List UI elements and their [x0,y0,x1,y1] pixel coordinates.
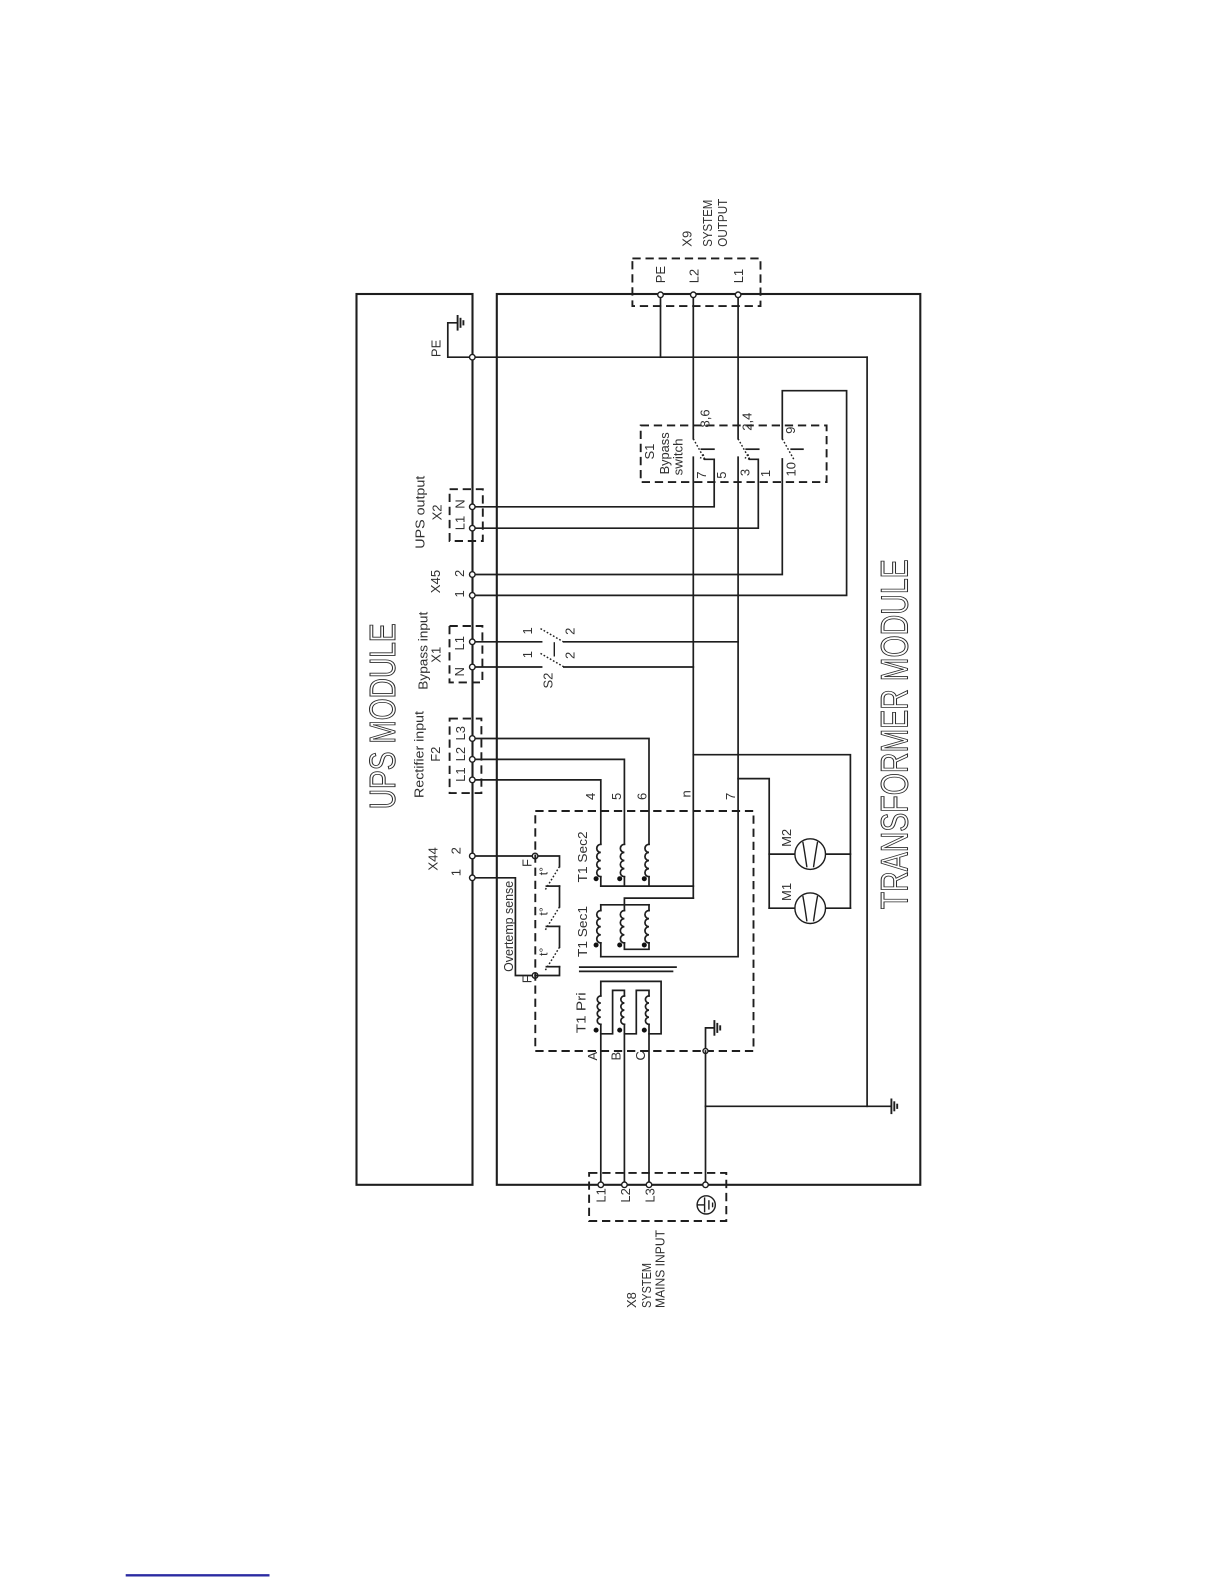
terminal X2-N [470,504,476,510]
svg-text:6: 6 [635,793,650,800]
svg-text:X2: X2 [430,504,445,520]
polarity dot T1 Sec2 winding 3 [642,876,647,881]
svg-text:M1: M1 [779,883,794,901]
fan M1 [795,893,826,924]
wire overtemp chain segment 3 to F lower [535,967,559,976]
svg-text:F: F [520,859,535,867]
wire overtemp chain segment 2 [559,926,561,947]
wire T1 Sec1 winding1 to return bus [600,943,602,957]
wire L1 from X9 to S1 pole2 [737,295,739,439]
thermostat contact t2 bar [546,925,559,927]
svg-text:X44: X44 [425,847,440,870]
svg-text:S1: S1 [642,444,657,460]
ground at transformer bottom right [890,1099,892,1115]
connector X1 dashed outline [450,626,483,682]
svg-text:L1: L1 [594,1188,609,1202]
svg-text:L1: L1 [731,269,746,283]
wire PE bottom horizontal to ground [706,1105,891,1107]
svg-text:PE: PE [428,339,443,357]
terminal X9-PE [658,292,664,298]
svg-text:5: 5 [714,472,729,479]
svg-text:2: 2 [448,847,463,854]
connector X9 dashed outline [632,258,760,306]
svg-text:2: 2 [452,570,467,577]
switch S1 pole3 contact tick [791,448,803,450]
svg-text:UPS output: UPS output [413,475,428,548]
svg-text:2,4: 2,4 [739,413,754,431]
svg-text:7: 7 [694,472,709,479]
polarity dot T1 Pri winding C [642,1028,647,1033]
wire X44-1 to overtemp return [472,878,535,976]
svg-text:X8: X8 [624,1292,639,1308]
terminal X9-L1 [735,292,741,298]
transformer T1 Sec1 winding 3 [648,905,650,911]
svg-text:S2: S2 [541,673,556,689]
switch S1 pole2 blade [738,439,750,460]
wire M2 left stub [769,853,795,855]
wire X8-PE to T1 ground [705,1051,707,1185]
wire PE jog to chassis ground [448,323,473,357]
transformer T1 Sec1 winding 1 [600,905,602,911]
wire T1 Sec1 head bus link [601,898,694,905]
svg-text:1: 1 [520,627,535,634]
thermostat contact t1 bar [546,885,559,887]
transformer T1 Pri winding A [601,981,661,1033]
wire F2-L1 to T1 winding 4 [472,780,601,844]
terminal F upper on T1 boundary [532,853,538,859]
svg-text:5: 5 [609,793,624,800]
UPS module boundary box [357,294,473,1185]
svg-text:L1: L1 [453,516,468,530]
svg-text:t°: t° [537,947,551,955]
fan M2 [795,839,826,870]
wire F2-L3 to T1 winding 6 [472,739,649,845]
terminal X8-L2 [622,1182,628,1188]
wire fan return feed from node n [693,755,850,909]
svg-text:L2: L2 [453,747,468,761]
svg-text:N: N [452,667,467,676]
wire phase A to X8-L1 [600,1024,602,1185]
terminal F2-L2 [470,757,476,763]
protective earth symbol in X8 [697,1196,715,1214]
svg-text:1: 1 [452,590,467,597]
transformer T1 Sec2 winding 2 [620,844,624,876]
wire S2 pole2 output to node n line [564,666,693,668]
switch S1 pole1 blade [693,439,705,460]
wire S1 pin5 jog to X2-N [472,459,714,507]
ground inside T1 box [706,1028,714,1051]
thermostat contact t3 blade [545,947,559,970]
polarity dot T1 Sec1 winding 3 [642,943,647,948]
switch S1 dashed outline [641,425,827,482]
svg-text:switch: switch [670,438,685,475]
terminal X9-L2 [691,292,697,298]
transformer T1 Pri winding B [601,990,625,1033]
wire L2 from X9 to S1 pole1 [692,295,694,439]
terminal X45-2 [470,572,476,578]
terminal X1-N [470,664,476,670]
terminal T1 ground on dashed edge [703,1049,708,1054]
connector X2 dashed outline [450,489,483,541]
wire node n vertical from S1 pin7 to T1 Sec2 star point [692,457,694,898]
transformer T1 Sec1 winding 2 [623,905,625,911]
svg-text:UPS MODULE: UPS MODULE [362,623,403,809]
terminal X44-2 [470,853,476,859]
wire overtemp chain segment 1 [559,886,561,907]
polarity dot T1 Sec2 winding 1 [594,876,599,881]
switch S1 pole1 contact tick [701,448,714,450]
wire S1 pin10 to X45-2 [472,459,782,575]
transformer T1 Sec2 winding 1 [597,844,601,876]
terminal PE on UPS edge [470,354,476,360]
thermostat contact t1 blade [545,867,559,890]
svg-text:L3: L3 [642,1188,657,1202]
svg-text:n: n [679,790,694,797]
footer link line [126,1574,270,1576]
transformer T1 dashed outline [535,811,753,1051]
wire X1-N to switch S2 pole2 [472,666,541,668]
wire M1 left stub [769,907,795,909]
svg-text:8,6: 8,6 [697,409,712,427]
svg-text:L1: L1 [453,767,468,781]
polarity dot T1 Sec1 winding 2 [617,943,622,948]
wire phase B to X8-L2 [623,1024,625,1185]
switch S2 pole1 blade [541,629,564,642]
wire T1 Sec1 winding2-winding3 link [624,943,649,949]
svg-text:Overtemp sense: Overtemp sense [501,881,516,972]
svg-text:L3: L3 [453,726,468,740]
svg-text:F2: F2 [428,747,443,762]
svg-text:1: 1 [448,869,463,876]
svg-text:t°: t° [537,867,551,875]
svg-text:2: 2 [563,628,578,635]
polarity dot T1 Pri winding A [594,1028,599,1033]
wire T1 Sec2 star bus to node n [601,885,694,887]
thermostat contact t2 blade [545,907,559,930]
wire S2 pole1 output to node 7 line [564,641,738,643]
svg-text:OUTPUT: OUTPUT [715,199,730,247]
wire M2 right stub [826,853,851,855]
svg-text:SYSTEM: SYSTEM [700,200,715,247]
terminal X45-1 [470,593,476,599]
ground chassis at UPS PE terminal [457,315,459,331]
svg-text:X9: X9 [679,231,694,247]
terminal F2-L3 [470,736,476,742]
svg-text:7: 7 [723,793,738,800]
terminal X8-L3 [646,1182,652,1188]
svg-text:T1 Sec2: T1 Sec2 [575,831,590,882]
svg-text:9: 9 [783,427,798,434]
svg-text:1: 1 [758,470,773,477]
wire PE from X9-PE down to PE bus [660,295,662,357]
terminal X8-PE [703,1182,709,1188]
svg-text:MAINS INPUT: MAINS INPUT [652,1230,667,1308]
TRANSFORMER module boundary box [497,294,921,1185]
wire X44-2 to overtemp chain [472,856,559,867]
switch S2 pole2 blade [541,653,564,666]
polarity dot T1 Pri winding B [617,1028,622,1033]
svg-text:L1: L1 [452,636,467,650]
thermostat contact t3 bar [546,966,559,968]
svg-text:N: N [453,499,468,508]
wire S1 pin9 feed from X45-1 [472,391,846,596]
svg-text:L2: L2 [618,1188,633,1202]
terminal F2-L1 [470,777,476,783]
wire fan supply feed from node 7 [738,779,769,909]
connector X8 dashed outline [589,1173,726,1221]
svg-text:F: F [520,975,535,983]
svg-text:2: 2 [563,652,578,659]
svg-text:10: 10 [784,462,799,476]
wire X1-L1 to switch S2 pole1 [472,641,541,643]
terminal X44-1 [470,875,476,881]
wire S1 pin1 jog to X2-L1 [472,459,758,528]
wire M1 right stub [826,907,851,909]
svg-text:X45: X45 [428,570,443,593]
svg-text:M2: M2 [779,829,794,847]
wire PE bus horizontal [472,356,867,358]
wire phase C to X8-L3 [648,1024,650,1185]
svg-text:X1: X1 [429,647,444,663]
svg-text:T1 Pri: T1 Pri [573,992,588,1033]
connector F2 dashed outline [450,719,482,794]
svg-text:t°: t° [537,907,551,915]
svg-text:T1 Sec1: T1 Sec1 [575,906,590,957]
terminal F lower on T1 boundary [532,973,538,979]
terminal X8-L1 [598,1182,604,1188]
svg-text:1: 1 [520,651,535,658]
switch S1 pole3 blade [782,439,794,460]
svg-text:TRANSFORMER MODULE: TRANSFORMER MODULE [875,559,917,909]
switch S2 linkage bar [553,642,555,656]
svg-text:A: A [585,1052,600,1061]
polarity dot T1 Sec1 winding 1 [594,943,599,948]
svg-text:B: B [609,1052,624,1061]
polarity dot T1 Sec2 winding 2 [617,876,622,881]
wire F2-L2 to T1 winding 5 [472,759,624,844]
transformer core [580,966,676,968]
svg-text:L2: L2 [686,269,701,283]
transformer T1 Pri winding C [624,990,649,1033]
svg-text:Rectifier input: Rectifier input [412,711,427,798]
switch S1 pole2 contact tick [746,448,759,450]
terminal X2-L1 [470,525,476,531]
svg-text:PE: PE [653,266,668,284]
svg-text:4: 4 [583,793,598,800]
wire PE down right side [866,357,868,1106]
wire node 7 vertical from S1 pin3 to T1 Sec1 return bus [601,457,738,957]
terminal X1-L1 [470,639,476,645]
transformer T1 Sec2 winding 3 [645,844,649,876]
svg-text:C: C [633,1051,648,1060]
svg-text:3: 3 [738,469,753,476]
